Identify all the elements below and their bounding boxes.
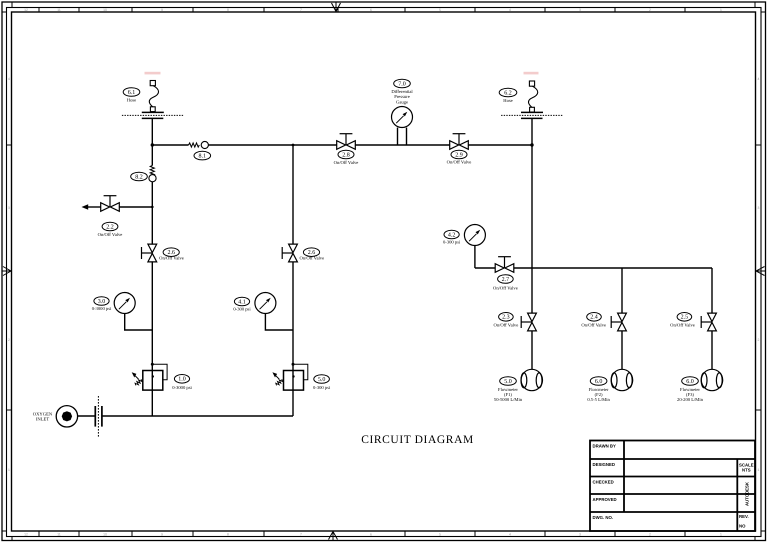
- svg-text:On/Off Valve: On/Off Valve: [447, 160, 472, 165]
- svg-text:CHECKED: CHECKED: [593, 480, 614, 485]
- svg-text:1: 1: [720, 533, 722, 537]
- svg-text:7.0: 7.0: [398, 81, 406, 87]
- svg-text:0-300 psi: 0-300 psi: [443, 240, 461, 245]
- svg-text:2: 2: [8, 338, 10, 342]
- svg-text:Pressure: Pressure: [394, 94, 410, 99]
- svg-text:2.3: 2.3: [502, 315, 510, 321]
- svg-text:2.4: 2.4: [590, 315, 598, 321]
- svg-text:0-300 psi: 0-300 psi: [233, 306, 251, 311]
- svg-text:4: 4: [509, 533, 511, 537]
- svg-text:1: 1: [758, 468, 760, 472]
- svg-text:5: 5: [439, 533, 441, 537]
- svg-text:11: 11: [57, 533, 61, 537]
- svg-text:On/Off Valve: On/Off Valve: [334, 160, 359, 165]
- svg-text:0-3000 psi: 0-3000 psi: [92, 306, 112, 311]
- svg-text:2.5: 2.5: [681, 315, 689, 321]
- svg-text:4.2: 4.2: [448, 232, 456, 238]
- svg-text:INLET: INLET: [36, 417, 49, 422]
- svg-text:3: 3: [579, 533, 581, 537]
- svg-text:8.1: 8.1: [199, 153, 207, 159]
- svg-text:11: 11: [57, 8, 61, 12]
- svg-text:On/Off Valve: On/Off Valve: [159, 256, 184, 261]
- svg-text:6.2: 6.2: [504, 90, 512, 96]
- svg-text:2: 2: [649, 8, 651, 12]
- svg-text:6: 6: [370, 533, 372, 537]
- svg-text:12: 12: [24, 533, 28, 537]
- svg-text:2.2: 2.2: [106, 224, 114, 230]
- svg-text:4: 4: [8, 77, 10, 81]
- svg-text:On/Off Valve: On/Off Valve: [581, 323, 606, 328]
- svg-text:DESIGNED: DESIGNED: [593, 462, 615, 467]
- svg-text:On/Off Valve: On/Off Valve: [299, 256, 324, 261]
- svg-text:2: 2: [758, 338, 760, 342]
- svg-text:APPROVED: APPROVED: [593, 497, 617, 502]
- svg-text:6.1: 6.1: [128, 90, 136, 96]
- svg-text:7: 7: [300, 8, 302, 12]
- svg-text:50-5000 L/Min: 50-5000 L/Min: [494, 397, 523, 402]
- svg-text:3: 3: [8, 206, 10, 210]
- svg-text:0-3000 psi: 0-3000 psi: [172, 385, 192, 390]
- svg-text:5.0: 5.0: [504, 379, 512, 385]
- svg-text:4: 4: [509, 8, 511, 12]
- svg-text:8: 8: [227, 8, 229, 12]
- svg-text:6.0: 6.0: [595, 379, 603, 385]
- svg-text:2.8: 2.8: [342, 152, 350, 158]
- svg-text:On/Off Valve: On/Off Valve: [493, 286, 518, 291]
- svg-text:2.7: 2.7: [502, 277, 510, 283]
- svg-text:1.0: 1.0: [178, 377, 186, 383]
- svg-text:12: 12: [24, 8, 28, 12]
- svg-text:7: 7: [300, 533, 302, 537]
- svg-text:On/Off Valve: On/Off Valve: [494, 323, 519, 328]
- svg-text:Differential: Differential: [391, 89, 413, 94]
- svg-text:2: 2: [649, 533, 651, 537]
- svg-text:9: 9: [161, 533, 163, 537]
- svg-text:1: 1: [8, 468, 10, 472]
- svg-text:6.0: 6.0: [686, 379, 694, 385]
- svg-text:4.1: 4.1: [238, 299, 246, 305]
- svg-text:8: 8: [227, 533, 229, 537]
- svg-text:Gauge: Gauge: [396, 99, 408, 104]
- svg-text:10: 10: [103, 533, 107, 537]
- svg-text:AUTODESK: AUTODESK: [745, 481, 750, 506]
- svg-text:0-300 psi: 0-300 psi: [313, 385, 331, 390]
- svg-text:3: 3: [579, 8, 581, 12]
- svg-text:Hose: Hose: [127, 97, 136, 102]
- svg-text:Hose: Hose: [503, 98, 512, 103]
- svg-text:2.9: 2.9: [455, 152, 463, 158]
- svg-text:0.5-5 L/Min: 0.5-5 L/Min: [587, 397, 610, 402]
- svg-text:3.0: 3.0: [98, 299, 106, 305]
- svg-text:NO: NO: [739, 524, 746, 529]
- svg-text:REV.: REV.: [739, 514, 749, 519]
- svg-text:8.2: 8.2: [135, 174, 143, 180]
- svg-text:5: 5: [439, 8, 441, 12]
- svg-text:6: 6: [370, 8, 372, 12]
- svg-text:1: 1: [720, 8, 722, 12]
- svg-text:5.0: 5.0: [318, 377, 326, 383]
- svg-text:3: 3: [758, 206, 760, 210]
- svg-text:9: 9: [161, 8, 163, 12]
- svg-text:On/Off Valve: On/Off Valve: [670, 323, 695, 328]
- svg-text:NTS: NTS: [742, 468, 751, 473]
- svg-text:20-200 L/Min: 20-200 L/Min: [677, 397, 704, 402]
- svg-text:DRAWN BY: DRAWN BY: [593, 444, 617, 449]
- svg-text:DWG. NO.: DWG. NO.: [593, 515, 614, 520]
- svg-text:10: 10: [103, 8, 107, 12]
- svg-text:CIRCUIT DIAGRAM: CIRCUIT DIAGRAM: [361, 434, 474, 446]
- svg-text:On/Off Valve: On/Off Valve: [98, 232, 123, 237]
- svg-text:4: 4: [758, 77, 760, 81]
